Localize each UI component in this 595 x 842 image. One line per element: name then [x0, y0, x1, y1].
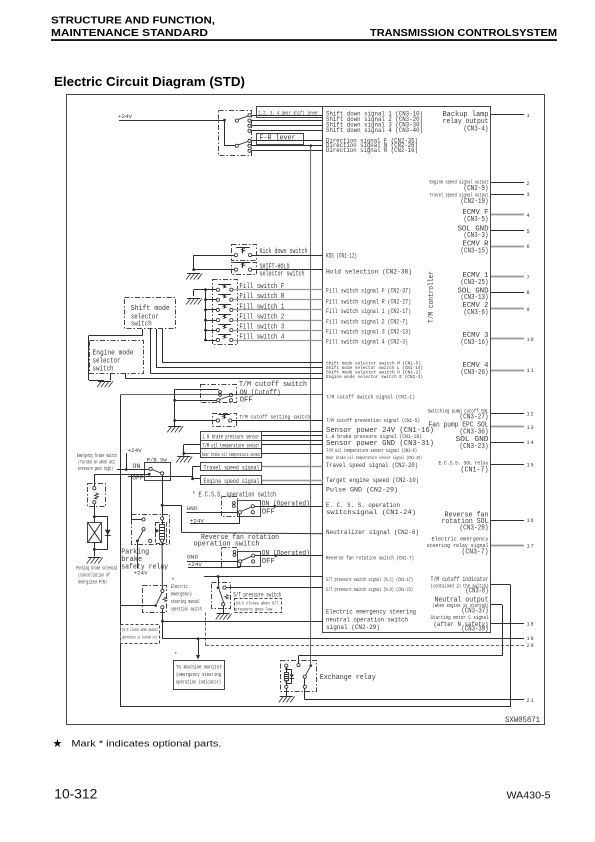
svg-text:To machine monitor: To machine monitor	[176, 665, 222, 671]
svg-text:Engine speed signal: Engine speed signal	[204, 478, 260, 486]
svg-text:9: 9	[527, 307, 531, 313]
svg-text:11: 11	[527, 368, 535, 374]
svg-text:(emergency steering: (emergency steering	[176, 672, 221, 678]
svg-text:WA430-5: WA430-5	[507, 790, 551, 801]
svg-text:(CN3-26): (CN3-26)	[461, 369, 489, 377]
svg-text:+24V: +24V	[188, 561, 202, 568]
svg-text:*: *	[172, 578, 175, 584]
svg-text:4: 4	[527, 213, 531, 219]
svg-text:energized P/B): energized P/B)	[78, 580, 107, 586]
svg-text:Fill switch F: Fill switch F	[239, 283, 284, 291]
svg-text:Electric emergency steering: Electric emergency steering	[326, 609, 416, 617]
svg-text:Shift mode: Shift mode	[131, 305, 170, 313]
svg-text:16: 16	[527, 518, 535, 524]
svg-text:(CN3-28): (CN3-28)	[460, 525, 489, 533]
svg-text:Hold selection (CN2-38): Hold selection (CN2-38)	[326, 269, 412, 277]
svg-text:Engine mode selector switch E: Engine mode selector switch E (CN2-3)	[326, 374, 423, 380]
svg-text:3: 3	[527, 192, 531, 198]
svg-text:Rear brake oil temperature sen: Rear brake oil temperature sensor signal…	[326, 455, 422, 461]
svg-text:Fill switch 3: Fill switch 3	[239, 324, 284, 332]
svg-text:1: 1	[527, 113, 531, 119]
svg-text:(CN2-19): (CN2-19)	[461, 198, 489, 206]
svg-text:T/M cutoff prevention signal (: T/M cutoff prevention signal (CN1-5)	[326, 417, 420, 424]
svg-text:(CN1-7): (CN1-7)	[461, 466, 489, 474]
svg-text:14: 14	[527, 440, 535, 446]
svg-text:★: ★	[53, 738, 63, 750]
svg-text:21: 21	[527, 698, 535, 704]
svg-text:safety relay: safety relay	[121, 564, 168, 572]
svg-text:12: 12	[527, 412, 535, 418]
svg-text:(CN3-15): (CN3-15)	[461, 247, 489, 255]
svg-text:(N.C closes when S/T: (N.C closes when S/T	[235, 600, 278, 606]
svg-text:T/M cutoff indicator: T/M cutoff indicator	[431, 576, 489, 583]
svg-text:Travel speed signal: Travel speed signal	[204, 464, 260, 472]
svg-text:steering manual: steering manual	[171, 599, 200, 605]
svg-text:E.C.S.S. SOL relay: E.C.S.S. SOL relay	[439, 459, 489, 466]
svg-text:15: 15	[527, 463, 535, 469]
svg-text:(CN3-23): (CN3-23)	[460, 443, 489, 451]
svg-text:SXW05871: SXW05871	[505, 716, 540, 725]
svg-text:18: 18	[527, 622, 535, 628]
svg-text:STRUCTURE AND FUNCTION,: STRUCTURE AND FUNCTION,	[51, 15, 215, 27]
svg-text:KDS (CN1-12): KDS (CN1-12)	[326, 252, 357, 260]
svg-text:OFF: OFF	[262, 558, 275, 566]
svg-text:+24V: +24V	[118, 113, 132, 120]
svg-text:1,2, 3, 4 gear shift lever: 1,2, 3, 4 gear shift lever	[259, 110, 319, 116]
svg-text:10-312: 10-312	[54, 786, 97, 801]
svg-text:MAINTENANCE STANDARD: MAINTENANCE STANDARD	[51, 27, 208, 39]
svg-text:GND: GND	[187, 554, 198, 561]
svg-text:T/M cutoff setting switch: T/M cutoff setting switch	[239, 414, 310, 421]
svg-text:Electric Circuit Diagram (STD): Electric Circuit Diagram (STD)	[54, 74, 245, 89]
svg-text:(CN3-4): (CN3-4)	[464, 126, 489, 134]
svg-text:(CN3-5): (CN3-5)	[464, 216, 489, 224]
svg-text:19: 19	[527, 636, 535, 642]
svg-text:GND: GND	[187, 505, 198, 512]
svg-text:(CN3-13): (CN3-13)	[461, 294, 489, 302]
svg-text:(CN3-6): (CN3-6)	[464, 309, 489, 317]
svg-text:Emergency brake switch: Emergency brake switch	[77, 453, 117, 459]
svg-text:Travel speed signal (CN2-20): Travel speed signal (CN2-20)	[326, 462, 418, 470]
svg-text:+24V: +24V	[128, 447, 142, 454]
svg-text:ON (Operated): ON (Operated)	[262, 550, 310, 558]
svg-text:operation switch: operation switch	[171, 607, 202, 613]
svg-text:Rear brake oil temperature sen: Rear brake oil temperature sensor	[202, 452, 261, 458]
svg-text:Engine mode: Engine mode	[93, 350, 134, 358]
svg-text:T/M cutoff switch signal (CN1-: T/M cutoff switch signal (CN1-1)	[326, 393, 415, 400]
svg-text:Fill switch 1: Fill switch 1	[239, 303, 284, 311]
svg-text:T/M oil temperature sensor sig: T/M oil temperature sensor signal (CN1-9…	[326, 448, 417, 454]
svg-text:Fill switch 2: Fill switch 2	[239, 314, 284, 322]
svg-text:selector: selector	[93, 358, 121, 366]
svg-text:Target engine speed (CN2-10): Target engine speed (CN2-10)	[326, 477, 419, 485]
svg-text:Fill switch signal F (CN2-37): Fill switch signal F (CN2-37)	[326, 287, 411, 294]
svg-text:*: *	[174, 652, 177, 658]
svg-text:Parking brake solenoid: Parking brake solenoid	[76, 566, 117, 572]
svg-text:10: 10	[527, 337, 535, 343]
svg-text:20: 20	[527, 643, 535, 649]
svg-text:17: 17	[527, 544, 535, 550]
svg-text:pressure goes low: pressure goes low	[235, 607, 272, 613]
svg-text:TRANSMISSION CONTROLSYSTEM: TRANSMISSION CONTROLSYSTEM	[370, 27, 557, 39]
svg-text:T/M controller: T/M controller	[428, 271, 436, 323]
svg-text:Fill switch 4: Fill switch 4	[239, 334, 284, 342]
svg-text:(CN3-7): (CN3-7)	[462, 549, 489, 557]
svg-text:operation indicator): operation indicator)	[176, 680, 221, 686]
svg-text:OFF: OFF	[132, 474, 143, 481]
svg-text:(CN3-25): (CN3-25)	[461, 279, 489, 287]
svg-text:Sensor power GND (CN3-31): Sensor power GND (CN3-31)	[326, 440, 434, 448]
svg-text:switch: switch	[131, 321, 152, 329]
svg-text:(cancellation of: (cancellation of	[78, 573, 110, 579]
svg-text:Fill switch signal R (CN2-27): Fill switch signal R (CN2-27)	[326, 298, 411, 305]
svg-text:selector switch: selector switch	[260, 270, 305, 278]
svg-text:(CN3-3): (CN3-3)	[464, 232, 489, 240]
svg-text:(CN3-27): (CN3-27)	[460, 414, 489, 422]
svg-text:L H brake pressure sensor: L H brake pressure sensor	[203, 434, 260, 441]
svg-text:pressure goes high): pressure goes high)	[78, 466, 113, 472]
svg-text:Reverse fan rotation switch (C: Reverse fan rotation switch (CN1-7)	[326, 554, 414, 561]
svg-text:L.H brake pressure signal (CN1: L.H brake pressure signal (CN1-18)	[326, 433, 422, 440]
svg-text:Fill switch signal 1 (CN2-17): Fill switch signal 1 (CN2-17)	[326, 308, 411, 315]
svg-text:emergency: emergency	[171, 592, 192, 598]
svg-text:OFF: OFF	[240, 396, 253, 404]
svg-text:(N.O closes when manual: (N.O closes when manual	[122, 627, 158, 633]
svg-text:* E.C.S.S. operation switch: * E.C.S.S. operation switch	[192, 491, 276, 499]
svg-text:(CN3-8): (CN3-8)	[466, 587, 489, 595]
svg-text:(Turned on when ACC: (Turned on when ACC	[78, 460, 115, 466]
svg-text:8: 8	[527, 290, 531, 296]
svg-text:S/T pressure switch: S/T pressure switch	[233, 592, 281, 599]
svg-text:2: 2	[527, 181, 531, 187]
svg-text:(CN3-39): (CN3-39)	[462, 625, 489, 633]
svg-text:Shift down signal 4 (CN3-40): Shift down signal 4 (CN3-40)	[326, 126, 423, 134]
svg-text:(CN3-16): (CN3-16)	[461, 339, 489, 347]
svg-text:switch: switch	[93, 366, 114, 374]
svg-text:T/M cutoff switch: T/M cutoff switch	[239, 381, 307, 389]
svg-text:Exchange relay: Exchange relay	[320, 674, 377, 682]
svg-text:operation is turned on): operation is turned on)	[122, 635, 157, 641]
svg-text:Mark * indicates optional part: Mark * indicates optional parts.	[71, 738, 221, 749]
svg-text:Fill switch R: Fill switch R	[239, 293, 285, 301]
svg-text:5: 5	[527, 229, 531, 235]
svg-text:S/T pressure switch signal (N.: S/T pressure switch signal (N.C) (CN1-17…	[326, 577, 413, 583]
svg-text:signal (CN2-29): signal (CN2-29)	[326, 624, 380, 632]
svg-text:Fill switch signal 2 (CN2-7): Fill switch signal 2 (CN2-7)	[326, 318, 408, 325]
svg-text:Pulse GND (CN2-29): Pulse GND (CN2-29)	[326, 486, 398, 494]
svg-text:Electric: Electric	[171, 584, 188, 590]
svg-text:OFF: OFF	[262, 508, 275, 516]
svg-text:7: 7	[527, 275, 531, 281]
svg-text:Direction signal R (CN2-16): Direction signal R (CN2-16)	[326, 146, 418, 154]
svg-text:13: 13	[527, 425, 535, 431]
svg-text:Neutralizer signal (CN2-6): Neutralizer signal (CN2-6)	[326, 529, 419, 537]
svg-text:6: 6	[527, 244, 531, 250]
svg-text:Fill switch signal 4 (CN2-3): Fill switch signal 4 (CN2-3)	[326, 338, 408, 345]
svg-text:F-R lever: F-R lever	[260, 134, 296, 142]
svg-text:switchsignal (CN1-24): switchsignal (CN1-24)	[326, 509, 416, 517]
svg-text:Fill switch signal 3 (CN2-13): Fill switch signal 3 (CN2-13)	[326, 328, 411, 335]
svg-text:S/T pressure switch signal (N.: S/T pressure switch signal (N.O) (CN1-23…	[326, 587, 413, 593]
